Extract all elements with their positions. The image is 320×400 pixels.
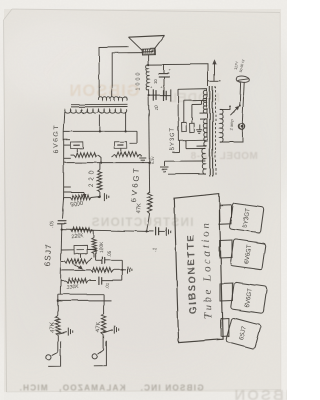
- svg-text:GIBSON: GIBSON: [232, 387, 287, 400]
- svg-text:2 amp: 2 amp: [229, 118, 235, 130]
- svg-text:100K: 100K: [99, 241, 106, 253]
- svg-text:INSTRUCTIONS: INSTRUCTIONS: [91, 215, 194, 229]
- svg-text:47K: 47K: [137, 203, 144, 214]
- svg-text:220K: 220K: [71, 233, 84, 240]
- svg-text:MODEL GA-8: MODEL GA-8: [190, 151, 258, 162]
- svg-text:.01: .01: [105, 282, 111, 289]
- svg-text:220: 220: [89, 170, 95, 187]
- svg-text:GIBSON INC. KALAMAZOO, MI: GIBSON INC. KALAMAZOO, MICH.: [18, 384, 203, 393]
- svg-text:.05: .05: [49, 221, 55, 228]
- svg-text:5Y3GT: 5Y3GT: [169, 127, 177, 150]
- svg-text:47K: 47K: [96, 322, 103, 333]
- svg-text:47K: 47K: [50, 322, 57, 333]
- svg-text:GIBSON: GIBSON: [68, 82, 139, 100]
- svg-text:10: 10: [153, 79, 158, 84]
- svg-text:6.3V: 6.3V: [151, 156, 155, 164]
- svg-text:.1: .1: [153, 247, 159, 252]
- svg-text:.05: .05: [107, 250, 114, 257]
- svg-text:10: 10: [154, 105, 159, 110]
